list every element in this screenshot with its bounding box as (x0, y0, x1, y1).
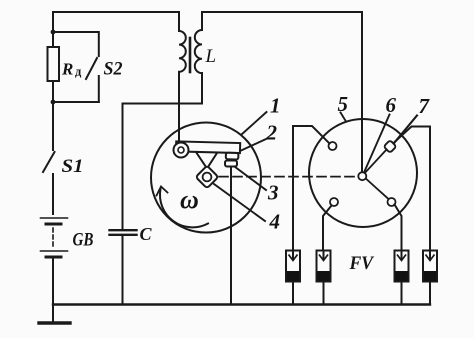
svg-text:3: 3 (267, 181, 279, 205)
svg-text:2: 2 (266, 121, 278, 145)
svg-text:1: 1 (270, 94, 281, 118)
svg-text:S2: S2 (104, 59, 123, 80)
svg-text:ω: ω (180, 185, 199, 214)
svg-text:5: 5 (338, 92, 349, 116)
svg-text:S1: S1 (62, 156, 84, 177)
svg-text:4: 4 (269, 210, 281, 234)
svg-text:L: L (205, 46, 217, 67)
svg-text:C: C (140, 224, 153, 244)
svg-text:7: 7 (419, 94, 431, 118)
svg-text:FV: FV (349, 253, 375, 274)
svg-text:R: R (61, 60, 73, 79)
svg-text:д: д (75, 65, 82, 79)
svg-text:GB: GB (73, 231, 94, 251)
svg-text:6: 6 (386, 93, 397, 117)
